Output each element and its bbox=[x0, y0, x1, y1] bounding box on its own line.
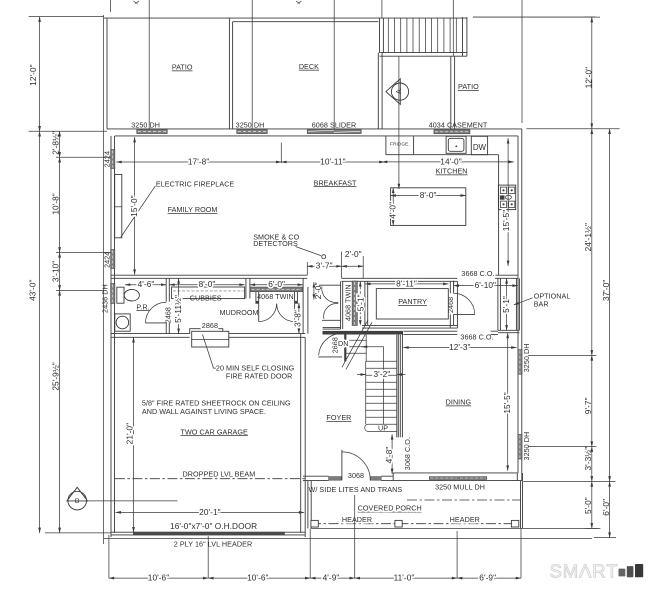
svg-text:3'-3½": 3'-3½" bbox=[583, 447, 593, 471]
porch left edge bbox=[308, 481, 311, 529]
dimension 6'-10" bbox=[454, 285, 518, 287]
stair rails / stairwell east wall bbox=[397, 335, 401, 438]
front wall foyer portion bbox=[303, 476, 393, 480]
dropped level beam line bbox=[115, 478, 305, 480]
extension lines from top edge bbox=[110, 0, 522, 130]
overhead door bbox=[133, 532, 285, 535]
stair break lines bbox=[342, 320, 372, 369]
window 2436 DH powder room bbox=[111, 284, 115, 304]
dimension 8'-11" pantry bbox=[365, 283, 448, 285]
patio (top-left) outline bbox=[104, 18, 467, 129]
dimension 2'-0" hall closet bbox=[313, 282, 315, 299]
west exterior wall bbox=[111, 136, 115, 533]
svg-text:17'-8": 17'-8" bbox=[188, 156, 209, 166]
dimension 6'-0" mudroom window bbox=[250, 284, 303, 286]
front door sidelite right bbox=[370, 477, 381, 481]
svg-text:DW: DW bbox=[473, 143, 487, 152]
svg-text:AND WALL AGAINST LIVING SPACE.: AND WALL AGAINST LIVING SPACE. bbox=[142, 407, 266, 416]
svg-text:2468: 2468 bbox=[164, 307, 173, 323]
svg-text:3'-7": 3'-7" bbox=[316, 261, 333, 271]
svg-text:4'-6": 4'-6" bbox=[138, 279, 155, 289]
left dimension chain outer bbox=[29, 17, 111, 533]
dimension 3'-2" stairs bbox=[357, 374, 366, 376]
main stairs UP bbox=[365, 361, 397, 431]
family room south wall bbox=[111, 275, 307, 278]
svg-text:2868: 2868 bbox=[202, 321, 218, 330]
svg-text:KITCHEN: KITCHEN bbox=[436, 167, 468, 176]
svg-text:FIRE RATED DOOR: FIRE RATED DOOR bbox=[226, 371, 293, 380]
section marker A bbox=[386, 79, 409, 105]
right dimension 6'-0" bbox=[609, 481, 611, 537]
dining north wall bbox=[403, 331, 498, 334]
range / cooktop bbox=[498, 185, 515, 210]
svg-text:3068 C.O.: 3068 C.O. bbox=[403, 437, 412, 470]
dimension 17'-8" bbox=[116, 161, 281, 163]
svg-text:PATIO: PATIO bbox=[172, 63, 193, 72]
porch header line bbox=[311, 523, 518, 525]
dining west wall bbox=[398, 334, 402, 437]
svg-text:TWO CAR GARAGE: TWO CAR GARAGE bbox=[181, 427, 249, 436]
dimension 5'-11 1/2" mudroom bbox=[178, 278, 180, 333]
cubbies/mudroom divider wall bbox=[246, 278, 250, 298]
mudroom window jambs bbox=[256, 292, 298, 304]
svg-text:8'-0": 8'-0" bbox=[420, 190, 437, 200]
svg-text:21'-0": 21'-0" bbox=[124, 423, 134, 444]
window 3250 DH dining lower bbox=[518, 434, 522, 459]
window 4034 casement bbox=[434, 130, 470, 134]
svg-text:3250 DH: 3250 DH bbox=[522, 344, 531, 373]
svg-text:HEADER: HEADER bbox=[450, 515, 480, 524]
window 2424 lower bbox=[111, 250, 115, 269]
svg-text:SMΛRT: SMΛRT bbox=[550, 560, 619, 581]
dimension 3'-8" mudroom bbox=[298, 303, 300, 334]
window 3250 DH dining upper bbox=[518, 350, 522, 375]
left dimension chain inner bbox=[56, 157, 111, 290]
svg-text:11'-0": 11'-0" bbox=[394, 573, 415, 583]
garage north wall bbox=[111, 334, 305, 338]
dimension 4'-0" island bbox=[392, 188, 394, 226]
svg-text:3250 DH: 3250 DH bbox=[522, 432, 531, 461]
svg-text:BREAKFAST: BREAKFAST bbox=[314, 178, 357, 187]
dining south wall bbox=[393, 473, 522, 481]
svg-text:DETECTORS: DETECTORS bbox=[253, 239, 298, 248]
dimension 4'-6" powder room bbox=[125, 284, 166, 286]
basement stairs DN bbox=[346, 335, 366, 362]
bottom dimension extension lines bbox=[109, 495, 521, 578]
svg-text:FAMILY ROOM: FAMILY ROOM bbox=[168, 205, 218, 214]
window 3250 DH #2 bbox=[237, 129, 268, 133]
svg-text:16'-0"x7'-0" O.H.DOOR: 16'-0"x7'-0" O.H.DOOR bbox=[170, 521, 257, 531]
svg-text:PANTRY: PANTRY bbox=[398, 297, 427, 306]
window 4068 twin pantry hall bbox=[352, 281, 357, 326]
window 3250 DH #1 bbox=[137, 129, 168, 133]
cubbies bench bbox=[172, 287, 245, 299]
dimension 4'-8" foyer opening bbox=[391, 434, 393, 474]
svg-text:BAR: BAR bbox=[534, 299, 549, 308]
front wall notch at dining bbox=[393, 473, 400, 481]
left full-height extension line bbox=[103, 15, 105, 544]
svg-text:COVERED PORCH: COVERED PORCH bbox=[358, 504, 422, 513]
svg-text:5'-0": 5'-0" bbox=[583, 497, 593, 514]
pantry door 2468 bbox=[454, 313, 475, 315]
svg-text:5'-1": 5'-1" bbox=[501, 296, 511, 313]
dimension 8'-0" cubbies bbox=[169, 284, 244, 286]
cut-off dimension text remnants at top bbox=[134, 1, 302, 4]
dimension 10'-11" bbox=[281, 161, 384, 163]
svg-text:2436 DH: 2436 DH bbox=[100, 284, 109, 313]
bottom dimension 10'-6" second bbox=[208, 577, 310, 579]
svg-text:12'-0": 12'-0" bbox=[583, 67, 593, 88]
section line A bbox=[398, 57, 400, 189]
dimension 2'-0" hall stub bbox=[342, 265, 364, 267]
svg-text:3250 DH: 3250 DH bbox=[236, 121, 265, 130]
mudroom double doors bbox=[259, 304, 295, 322]
svg-text:12'-3": 12'-3" bbox=[449, 342, 470, 352]
right dimension 9'-7" bbox=[591, 355, 593, 446]
dimension 12'-3" bbox=[403, 347, 516, 349]
optional bar bbox=[498, 278, 520, 332]
svg-text:10'-11": 10'-11" bbox=[320, 156, 345, 166]
svg-text:UP: UP bbox=[378, 424, 388, 433]
svg-text:12'-0": 12'-0" bbox=[28, 64, 38, 85]
mull window right half bbox=[459, 477, 487, 480]
svg-text:2'-8½": 2'-8½" bbox=[51, 131, 61, 155]
svg-text:3668 C.O.: 3668 C.O. bbox=[461, 269, 494, 278]
svg-text:6'-0": 6'-0" bbox=[268, 279, 285, 289]
dimension 14'-0" kitchen bbox=[382, 161, 514, 163]
svg-text:15'-5": 15'-5" bbox=[502, 392, 512, 413]
porch roof line bbox=[407, 499, 521, 501]
bottom dimension 6'-9" bbox=[457, 577, 521, 579]
svg-text:15'-5": 15'-5" bbox=[501, 210, 511, 231]
svg-text:W/ SIDE LITES AND TRANS: W/ SIDE LITES AND TRANS bbox=[309, 485, 403, 494]
svg-text:37'-0": 37'-0" bbox=[601, 280, 611, 301]
pantry west wall bbox=[365, 281, 368, 325]
powder room sink bbox=[115, 314, 130, 331]
porch slab edge bbox=[311, 527, 598, 529]
porch post left bbox=[311, 520, 318, 527]
mudroom east wall bbox=[303, 278, 308, 333]
dimension 21'-0" garage bbox=[133, 337, 135, 532]
svg-text:A: A bbox=[396, 89, 403, 94]
svg-text:2'-0": 2'-0" bbox=[345, 249, 362, 259]
svg-text:9'-7": 9'-7" bbox=[583, 397, 593, 414]
bottom dimension 10'-6" left bbox=[109, 577, 208, 579]
SMART MLS watermark bbox=[550, 560, 644, 581]
dimension 5'-1" bar bbox=[506, 278, 508, 330]
dimension 20'-1" garage width bbox=[116, 511, 304, 513]
svg-text:8'-0": 8'-0" bbox=[199, 279, 216, 289]
dishwasher DW bbox=[471, 136, 487, 154]
svg-text:43'-0": 43'-0" bbox=[28, 279, 38, 300]
north exterior wall bbox=[107, 129, 522, 136]
front door 3068 bbox=[341, 450, 343, 481]
dimension 3'-7" hall opening bbox=[307, 265, 341, 267]
right dimension 24'-1 1/2" bbox=[591, 129, 593, 356]
fire door leader bbox=[203, 335, 216, 369]
svg-text:FOYER: FOYER bbox=[326, 413, 351, 422]
kitchen wall segment right of 3668 opening bbox=[495, 275, 518, 278]
svg-text:6068 SLIDER: 6068 SLIDER bbox=[312, 121, 357, 130]
svg-text:14'-0": 14'-0" bbox=[440, 156, 461, 166]
svg-text:DROPPED LVL BEAM: DROPPED LVL BEAM bbox=[183, 469, 256, 478]
svg-text:10'-6": 10'-6" bbox=[148, 573, 169, 583]
right dimension 3'-3 1/2" bbox=[591, 447, 593, 482]
svg-text:4068 TWIN: 4068 TWIN bbox=[343, 284, 352, 321]
svg-text:HEADER: HEADER bbox=[342, 515, 372, 524]
svg-text:PATIO: PATIO bbox=[458, 82, 479, 91]
grade / apron line bbox=[104, 538, 592, 540]
svg-text:3068: 3068 bbox=[348, 471, 364, 480]
kitchen island bbox=[391, 188, 466, 226]
svg-text:B: B bbox=[75, 498, 80, 505]
dimension 15'-5" kitchen wall bbox=[507, 138, 509, 266]
svg-text:3'-10": 3'-10" bbox=[51, 261, 61, 282]
svg-text:10'-6": 10'-6" bbox=[247, 573, 268, 583]
right dimension 5'-0" bbox=[591, 481, 593, 528]
svg-text:15'-0": 15'-0" bbox=[129, 195, 139, 216]
garage east wall bbox=[301, 334, 306, 533]
deck outline bbox=[229, 18, 378, 129]
stairwell west wall (poche) bbox=[344, 331, 346, 361]
hall closet doors bbox=[319, 285, 341, 320]
svg-text:6'-0": 6'-0" bbox=[601, 499, 611, 516]
powder room east wall bbox=[166, 278, 169, 333]
svg-text:10'-8": 10'-8" bbox=[51, 193, 61, 214]
east exterior wall bbox=[518, 129, 522, 481]
svg-text:3'-2": 3'-2" bbox=[374, 369, 391, 379]
toilet bbox=[117, 287, 140, 303]
mull window left half bbox=[429, 477, 458, 480]
pantry shelves bbox=[376, 289, 448, 319]
deck right wall bbox=[378, 53, 382, 129]
kitchen sink bbox=[446, 136, 466, 153]
svg-text:4034 CASEMENT: 4034 CASEMENT bbox=[429, 121, 488, 130]
pantry east wall bbox=[450, 281, 457, 328]
smoke detector leader and symbol bbox=[296, 247, 321, 256]
right dimension chain ticks bbox=[523, 17, 619, 538]
svg-text:20'-1": 20'-1" bbox=[199, 507, 220, 517]
window 4068 twin mudroom bbox=[250, 287, 303, 292]
svg-text:8'-11": 8'-11" bbox=[396, 278, 417, 288]
bottom dimension 11'-0" bbox=[355, 577, 457, 579]
svg-text:6'-9": 6'-9" bbox=[479, 573, 496, 583]
svg-text:3'-8": 3'-8" bbox=[292, 310, 302, 327]
svg-text:3250 MULL DH: 3250 MULL DH bbox=[435, 482, 485, 491]
powder room door 2468 bbox=[146, 322, 167, 324]
svg-text:MUDROOM: MUDROOM bbox=[219, 308, 258, 317]
front door sidelite left bbox=[329, 477, 342, 481]
svg-text:P.R.: P.R. bbox=[136, 302, 149, 311]
right dimension 12'-0" bbox=[591, 17, 593, 129]
dimension 15'-0" family room bbox=[134, 137, 136, 275]
svg-text:5'-11½": 5'-11½" bbox=[173, 295, 183, 323]
svg-text:2468: 2468 bbox=[446, 297, 455, 313]
svg-text:4'-0": 4'-0" bbox=[388, 202, 398, 219]
svg-text:3668 C.O.: 3668 C.O. bbox=[460, 332, 493, 341]
deck stairs bbox=[380, 17, 467, 56]
svg-text:DN: DN bbox=[338, 339, 348, 348]
hall closet walls bbox=[323, 281, 343, 329]
svg-text:25'-9½": 25'-9½" bbox=[51, 362, 61, 390]
svg-text:6'-10": 6'-10" bbox=[475, 280, 496, 290]
pantry north wall / wall stub bbox=[342, 278, 458, 281]
svg-text:2424: 2424 bbox=[102, 252, 111, 268]
pantry south wall bbox=[362, 325, 457, 328]
electric fireplace bbox=[115, 174, 122, 237]
porch post right bbox=[511, 520, 518, 527]
svg-text:DECK: DECK bbox=[299, 62, 319, 71]
svg-text:24'-1½": 24'-1½" bbox=[583, 223, 593, 251]
stairwell north wall (hatched) bbox=[323, 331, 404, 335]
bottom dimension 4'-9" bbox=[310, 577, 355, 579]
right dimension 37'-0" bbox=[609, 129, 611, 482]
garage south wall bbox=[111, 532, 305, 537]
porch post middle bbox=[395, 520, 402, 527]
dimension 8'-0" island bbox=[391, 195, 466, 197]
kitchen right counter bbox=[498, 155, 500, 276]
svg-text:2 PLY 16" LVL HEADER: 2 PLY 16" LVL HEADER bbox=[174, 540, 252, 549]
svg-text:3250 DH: 3250 DH bbox=[131, 121, 160, 130]
window 6068 slider bbox=[307, 129, 361, 133]
svg-text:DINING: DINING bbox=[446, 398, 472, 407]
dimension 5'-1" pantry hall bbox=[359, 281, 361, 325]
svg-text:4'-9": 4'-9" bbox=[323, 573, 340, 583]
dimension 15'-5" dining bbox=[507, 333, 509, 471]
patio (top-right) outline bbox=[451, 17, 596, 129]
svg-text:2424: 2424 bbox=[102, 151, 111, 167]
window 2424 upper bbox=[111, 150, 115, 169]
svg-text:CUBBIES: CUBBIES bbox=[190, 294, 222, 303]
svg-text:ELECTRIC FIREPLACE: ELECTRIC FIREPLACE bbox=[156, 179, 235, 188]
svg-text:4'-8": 4'-8" bbox=[384, 447, 394, 464]
section line B bbox=[87, 500, 178, 502]
svg-text:4068 TWIN: 4068 TWIN bbox=[257, 292, 294, 301]
svg-text:FRIDGE.: FRIDGE. bbox=[390, 142, 410, 148]
porch right edge bbox=[521, 473, 523, 528]
garage fire door 2868 bbox=[190, 329, 229, 347]
svg-text:5'-1": 5'-1" bbox=[355, 294, 365, 311]
kitchen top counter bbox=[386, 136, 499, 155]
stair direction line bbox=[362, 347, 383, 424]
section marker B bbox=[67, 487, 88, 510]
basement door 2668 bbox=[318, 356, 342, 358]
